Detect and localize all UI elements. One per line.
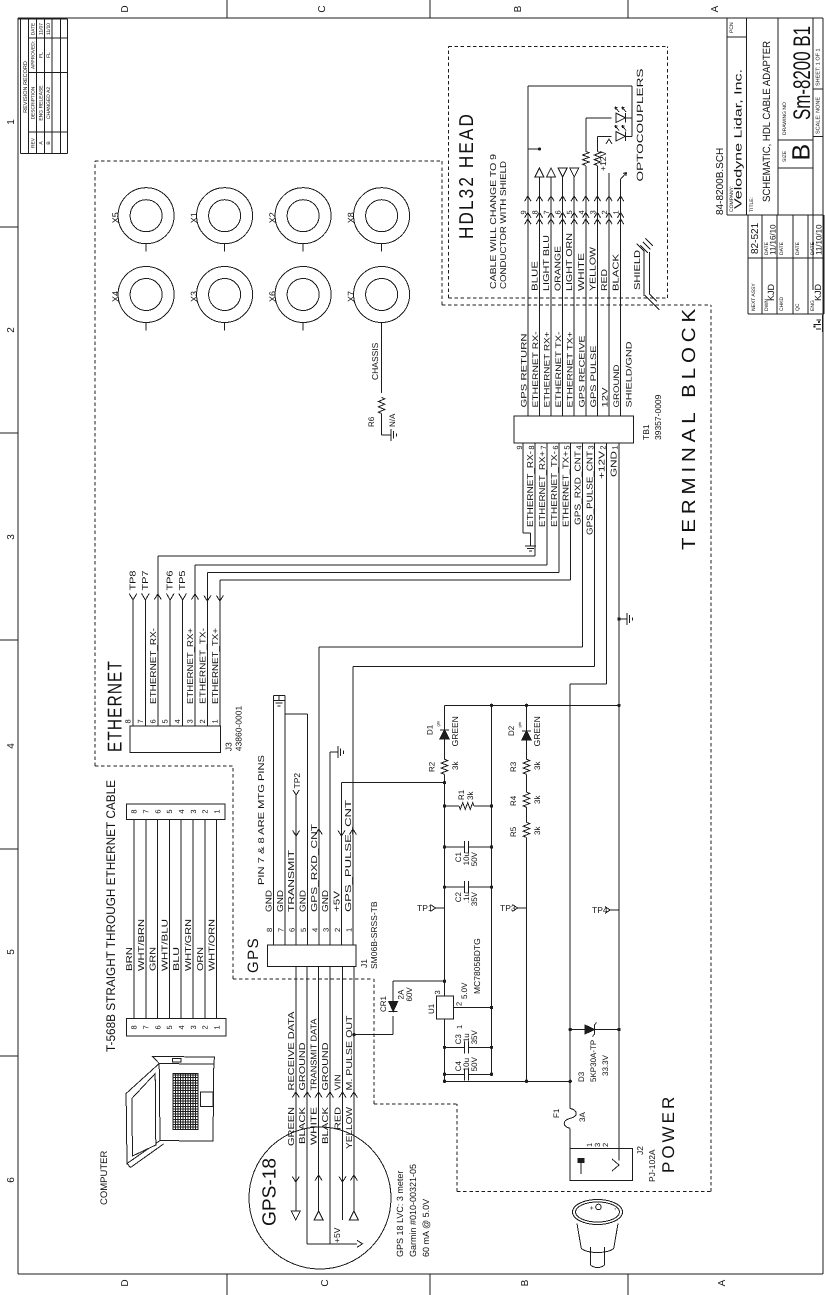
svg-text:X3: X3: [189, 291, 199, 302]
svg-text:ETHERNET_TX+: ETHERNET_TX+: [561, 451, 571, 527]
svg-text:ENG: ENG: [810, 300, 816, 311]
svg-text:VIN: VIN: [333, 1075, 343, 1091]
svg-text:REVISION RECORD: REVISION RECORD: [23, 61, 29, 113]
svg-text:1: 1: [213, 1025, 222, 1029]
svg-text:D2: D2: [507, 725, 516, 736]
svg-text:ETHERNET TX+: ETHERNET TX+: [566, 331, 575, 407]
svg-text:11/10/10: 11/10/10: [815, 224, 824, 255]
svg-text:5: 5: [565, 210, 574, 214]
svg-text:SCALE: NONE: SCALE: NONE: [816, 97, 822, 134]
svg-text:1: 1: [210, 719, 219, 723]
svg-text:PIN 7 & 8 ARE MTG PINS: PIN 7 & 8 ARE MTG PINS: [256, 755, 266, 885]
svg-text:82-521: 82-521: [750, 222, 761, 254]
svg-text:CR1: CR1: [379, 995, 388, 1012]
svg-text:X1: X1: [189, 212, 199, 223]
svg-text:+: +: [589, 1206, 596, 1210]
svg-text:ETHERNET TX-: ETHERNET TX-: [554, 331, 563, 407]
svg-text:CABLE WILL CHANGE TO 9: CABLE WILL CHANGE TO 9: [488, 154, 498, 289]
svg-text:GPS_PULSE_CNT: GPS_PULSE_CNT: [585, 451, 595, 535]
svg-text:DATE: DATE: [30, 23, 36, 35]
svg-text:7: 7: [276, 928, 285, 932]
svg-text:ETHERNET_TX-: ETHERNET_TX-: [197, 628, 207, 704]
svg-text:TERMINAL BLOCK: TERMINAL BLOCK: [679, 304, 700, 550]
svg-text:5.0V: 5.0V: [460, 982, 469, 999]
svg-text:RECEIVE DATA: RECEIVE DATA: [286, 1011, 296, 1090]
svg-text:BLUE: BLUE: [529, 261, 539, 291]
svg-text:3k: 3k: [533, 826, 542, 835]
svg-text:7: 7: [542, 210, 551, 214]
svg-text:35V: 35V: [470, 1030, 479, 1045]
svg-text:DATE: DATE: [795, 241, 801, 255]
svg-text:3: 3: [587, 446, 596, 450]
svg-text:3: 3: [588, 210, 597, 214]
svg-text:QC: QC: [795, 303, 801, 311]
svg-text:N/A: N/A: [388, 413, 397, 427]
svg-text:9: 9: [519, 210, 528, 214]
svg-text:R1: R1: [457, 789, 466, 800]
svg-text:SHEET: 1 OF 1: SHEET: 1 OF 1: [816, 48, 822, 86]
svg-text:6: 6: [153, 1025, 162, 1029]
svg-text:GND: GND: [275, 890, 285, 912]
svg-text:1: 1: [6, 119, 17, 125]
svg-text:TP8: TP8: [128, 570, 138, 590]
svg-text:5: 5: [6, 949, 17, 955]
svg-text:APPROVED:: APPROVED:: [30, 41, 36, 69]
svg-text:RED: RED: [599, 269, 609, 291]
svg-text:REV: REV: [30, 137, 36, 148]
svg-text:X2: X2: [268, 212, 278, 223]
svg-text:TP6: TP6: [165, 570, 175, 590]
svg-text:GPS-18: GPS-18: [260, 1158, 281, 1226]
svg-text:4: 4: [173, 719, 182, 723]
svg-text:11/07: 11/07: [38, 23, 44, 35]
svg-text:NEXT ASSY: NEXT ASSY: [751, 283, 757, 311]
svg-text:KJD: KJD: [813, 283, 823, 301]
svg-text:GROUND: GROUND: [297, 1043, 307, 1091]
svg-text:8: 8: [124, 719, 133, 723]
svg-text:2: 2: [201, 1025, 210, 1029]
svg-text:GRN: GRN: [148, 947, 158, 971]
svg-text:OPTOCOUPLERS: OPTOCOUPLERS: [635, 69, 645, 182]
svg-text:CHKD: CHKD: [779, 296, 785, 311]
svg-text:GREEN: GREEN: [286, 1107, 296, 1146]
svg-text:3k: 3k: [466, 791, 475, 800]
svg-text:5: 5: [165, 809, 174, 813]
svg-text:ETHERNET: ETHERNET: [105, 660, 127, 752]
svg-text:+5V: +5V: [332, 1227, 342, 1243]
svg-text:GROUND: GROUND: [612, 364, 621, 407]
svg-text:3: 3: [322, 928, 331, 932]
svg-text:BLACK: BLACK: [611, 254, 621, 291]
svg-text:GREEN: GREEN: [450, 716, 460, 746]
svg-text:TP2: TP2: [292, 773, 302, 789]
svg-text:U1: U1: [427, 1003, 436, 1014]
svg-text:R6: R6: [367, 416, 376, 427]
svg-text:43860-0001: 43860-0001: [234, 706, 244, 752]
svg-text:BLU: BLU: [171, 947, 181, 971]
svg-text:TRANSMIT: TRANSMIT: [286, 850, 296, 912]
svg-text:5KP30A-TP: 5KP30A-TP: [589, 1040, 598, 1082]
svg-text:2: 2: [6, 327, 17, 333]
svg-text:8: 8: [130, 1025, 139, 1029]
svg-text:BRN: BRN: [124, 947, 134, 971]
svg-text:2: 2: [601, 1143, 610, 1147]
svg-text:GND: GND: [320, 890, 330, 912]
svg-text:1: 1: [455, 1025, 464, 1029]
svg-text:CONDUCTOR WITH SHIELD: CONDUCTOR WITH SHIELD: [498, 161, 508, 289]
svg-text:39357-0009: 39357-0009: [653, 394, 663, 440]
svg-text:D3: D3: [577, 1071, 586, 1082]
svg-text:+5V: +5V: [332, 891, 342, 912]
svg-text:BLACK: BLACK: [320, 1107, 330, 1144]
svg-text:5: 5: [563, 446, 572, 450]
svg-text:X4: X4: [111, 291, 121, 302]
svg-text:B: B: [513, 5, 524, 12]
svg-text:4: 4: [575, 446, 584, 450]
svg-text:GPS PULSE: GPS PULSE: [589, 346, 598, 408]
svg-text:RED: RED: [333, 1107, 343, 1130]
svg-text:WHT/ORN: WHT/ORN: [207, 919, 217, 971]
svg-text:X6: X6: [268, 291, 278, 302]
svg-text:6: 6: [551, 446, 560, 450]
svg-text:COMPUTER: COMPUTER: [99, 1151, 110, 1206]
svg-text:FL: FL: [46, 52, 52, 58]
svg-text:ETHERNET RX+: ETHERNET RX+: [543, 331, 552, 407]
svg-text:ETHERNET RX-: ETHERNET RX-: [531, 331, 540, 407]
svg-text:D1: D1: [426, 724, 435, 735]
svg-text:6: 6: [554, 210, 563, 214]
svg-text:ETHERNET_RX+: ETHERNET_RX+: [185, 628, 195, 704]
svg-text:J1: J1: [359, 959, 369, 968]
svg-text:TP3: TP3: [500, 903, 516, 913]
svg-text:6: 6: [148, 719, 157, 723]
svg-text:WHT/BRN: WHT/BRN: [136, 919, 146, 971]
svg-text:WHITE: WHITE: [309, 1107, 319, 1145]
svg-text:1: 1: [610, 446, 619, 450]
svg-text:WHT/GRN: WHT/GRN: [183, 919, 193, 971]
svg-text:GND: GND: [608, 451, 618, 477]
svg-text:3: 3: [6, 534, 17, 540]
svg-text:GPS RETURN: GPS RETURN: [519, 333, 528, 407]
svg-text:PCN: PCN: [729, 22, 735, 33]
svg-text:M. PULSE OUT: M. PULSE OUT: [344, 1016, 354, 1091]
svg-text:3: 3: [433, 990, 442, 994]
svg-text:4: 4: [577, 210, 586, 214]
svg-text:J3: J3: [224, 742, 234, 751]
svg-text:MC7805BDTG: MC7805BDTG: [472, 938, 482, 994]
svg-text:TB1: TB1: [641, 424, 651, 440]
svg-text:CHANGED A2: CHANGED A2: [46, 87, 52, 119]
svg-text:11/16/10: 11/16/10: [769, 224, 778, 255]
svg-text:+12V: +12V: [596, 451, 606, 479]
svg-text:ORN: ORN: [195, 947, 205, 971]
svg-text:DESCRIPTION: DESCRIPTION: [30, 86, 36, 119]
svg-text:YELLOW: YELLOW: [587, 247, 597, 291]
svg-text:GND: GND: [298, 890, 308, 912]
svg-text:6: 6: [6, 1177, 17, 1183]
svg-text:B: B: [788, 144, 816, 161]
svg-text:B: B: [46, 141, 52, 145]
svg-text:J2: J2: [635, 1146, 645, 1155]
svg-text:GPS: GPS: [245, 937, 262, 973]
svg-text:Velodyne Lidar, Inc.: Velodyne Lidar, Inc.: [733, 69, 745, 209]
svg-text:50V: 50V: [470, 851, 479, 866]
svg-text:C: C: [320, 1279, 331, 1286]
svg-text:3: 3: [189, 1025, 198, 1029]
svg-text:ETHERNET_RX+: ETHERNET_RX+: [537, 451, 547, 527]
svg-text:6: 6: [288, 928, 297, 932]
svg-text:2: 2: [198, 719, 207, 723]
svg-text:GROUND: GROUND: [320, 1043, 330, 1091]
svg-text:2: 2: [201, 809, 210, 813]
svg-text:GPS 18 LVC: 3 meter: GPS 18 LVC: 3 meter: [395, 1171, 405, 1257]
svg-text:4: 4: [177, 809, 186, 813]
svg-text:POWER: POWER: [659, 1094, 678, 1173]
svg-text:GND: GND: [263, 890, 273, 912]
svg-text:GPS_RXD_CNT: GPS_RXD_CNT: [309, 824, 319, 912]
svg-text:WHT/BLU: WHT/BLU: [159, 919, 169, 971]
svg-text:WHITE: WHITE: [576, 253, 586, 291]
svg-text:+12V: +12V: [598, 151, 608, 171]
svg-text:R3: R3: [509, 761, 518, 772]
svg-text:1: 1: [612, 210, 621, 214]
svg-text:8: 8: [265, 928, 274, 932]
svg-text:TP5: TP5: [177, 570, 187, 590]
svg-text:4: 4: [6, 743, 17, 749]
svg-text:ETHERNET_RX-: ETHERNET_RX-: [525, 451, 535, 527]
svg-text:grn: grn: [436, 721, 441, 727]
svg-text:BLACK: BLACK: [297, 1107, 307, 1144]
svg-text:Sm-8200 B1: Sm-8200 B1: [789, 26, 816, 120]
svg-text:SM06B-SRSS-TB: SM06B-SRSS-TB: [369, 901, 379, 969]
svg-text:8: 8: [530, 210, 539, 214]
svg-text:35V: 35V: [470, 891, 479, 906]
svg-text:3: 3: [186, 719, 195, 723]
svg-text:GPS_PULSE_CNT: GPS_PULSE_CNT: [343, 800, 353, 912]
svg-text:C: C: [317, 5, 328, 12]
svg-text:KJD: KJD: [766, 283, 776, 301]
svg-text:3k: 3k: [451, 761, 460, 770]
svg-text:GPS_RXD_CNT: GPS_RXD_CNT: [573, 451, 583, 525]
svg-text:T-568B STRAIGHT THROUGH ETHERN: T-568B STRAIGHT THROUGH ETHERNET CABLE: [104, 780, 118, 1052]
svg-text:3A: 3A: [578, 1112, 587, 1122]
svg-text:7: 7: [142, 1025, 151, 1029]
svg-text:GREEN: GREEN: [532, 716, 542, 746]
svg-text:ORANGE: ORANGE: [553, 246, 563, 291]
svg-text:A: A: [38, 141, 44, 145]
svg-text:DATE: DATE: [779, 241, 785, 255]
svg-text:A: A: [710, 5, 721, 12]
svg-text:7: 7: [142, 809, 151, 813]
svg-text:LIGHT ORN: LIGHT ORN: [564, 233, 574, 291]
svg-text:TRANSMIT DATA: TRANSMIT DATA: [309, 1018, 319, 1090]
svg-text:1: 1: [344, 928, 353, 932]
svg-text:7: 7: [539, 446, 548, 450]
svg-text:TITLE:: TITLE:: [749, 197, 755, 212]
svg-text:-: -: [612, 1207, 619, 1210]
svg-text:grn: grn: [517, 722, 522, 728]
svg-text:2: 2: [333, 928, 342, 932]
svg-text:YELLOW: YELLOW: [344, 1107, 354, 1149]
svg-text:GPS RECEIVE: GPS RECEIVE: [577, 336, 586, 408]
svg-text:PJ-102A: PJ-102A: [647, 1149, 657, 1182]
svg-text:3k: 3k: [533, 761, 542, 770]
svg-text:2: 2: [455, 1002, 464, 1006]
svg-text:LIGHT BLU: LIGHT BLU: [541, 235, 551, 291]
svg-text:DRAWING NO: DRAWING NO: [782, 102, 788, 135]
svg-text:B: B: [520, 1279, 531, 1286]
svg-text:ETHERNET_TX+: ETHERNET_TX+: [210, 628, 220, 704]
svg-text:TP1: TP1: [417, 903, 433, 913]
svg-text:ENG RELEASE: ENG RELEASE: [38, 85, 44, 121]
svg-text:F1: F1: [552, 1108, 561, 1118]
svg-text:8: 8: [527, 446, 536, 450]
svg-text:84-8200B.SCH: 84-8200B.SCH: [715, 148, 726, 215]
svg-text:4: 4: [177, 1025, 186, 1029]
svg-text:3k: 3k: [533, 795, 542, 804]
svg-text:D: D: [120, 1279, 131, 1286]
svg-text:R5: R5: [509, 826, 518, 837]
svg-text:X8: X8: [346, 212, 356, 223]
svg-text:SHIELD: SHIELD: [632, 250, 642, 290]
svg-text:D: D: [120, 5, 131, 12]
svg-text:8: 8: [130, 809, 139, 813]
svg-text:X5: X5: [111, 212, 121, 223]
svg-text:FL: FL: [38, 52, 44, 58]
svg-text:7: 7: [136, 719, 145, 723]
svg-text:ETHERNET_RX-: ETHERNET_RX-: [148, 628, 158, 704]
svg-text:X7: X7: [346, 291, 356, 302]
svg-text:50V: 50V: [470, 1056, 479, 1071]
svg-text:6: 6: [153, 809, 162, 813]
svg-text:12V: 12V: [601, 387, 610, 408]
svg-text:11/10: 11/10: [46, 23, 52, 35]
svg-text:TP7: TP7: [140, 570, 150, 590]
svg-text:60 mA @ 5.0V: 60 mA @ 5.0V: [421, 1199, 431, 1257]
svg-text:Garmin #010-00321-05: Garmin #010-00321-05: [408, 1164, 418, 1257]
svg-text:60V: 60V: [405, 987, 414, 1002]
svg-text:CHASSIS: CHASSIS: [370, 342, 380, 380]
svg-text:HDL32 HEAD: HDL32 HEAD: [456, 112, 478, 239]
svg-text:5: 5: [299, 928, 308, 932]
svg-text:R4: R4: [509, 795, 518, 806]
svg-text:2: 2: [598, 446, 607, 450]
svg-text:1: 1: [213, 809, 222, 813]
svg-text:5: 5: [161, 719, 170, 723]
svg-text:A: A: [717, 1279, 728, 1286]
svg-text:2: 2: [600, 210, 609, 214]
svg-text:33.3V: 33.3V: [601, 1054, 610, 1076]
svg-text:SCHEMATIC, HDL CABLE ADAPTER: SCHEMATIC, HDL CABLE ADAPTER: [761, 41, 773, 202]
svg-text:R2: R2: [428, 761, 437, 772]
svg-text:ETHERNET_TX-: ETHERNET_TX-: [549, 451, 559, 527]
svg-text:3: 3: [189, 809, 198, 813]
svg-text:SHIELD/GND: SHIELD/GND: [625, 341, 634, 407]
svg-text:5: 5: [165, 1025, 174, 1029]
svg-text:4: 4: [310, 928, 319, 932]
